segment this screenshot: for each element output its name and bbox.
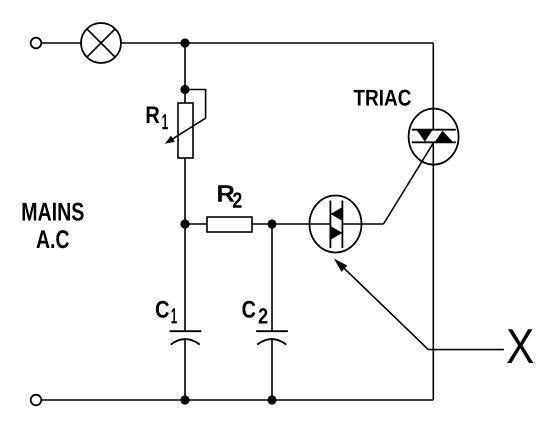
wire T1 to lamp	[42, 42, 82, 44]
node J4	[267, 219, 276, 228]
wire right side down to triac	[432, 43, 434, 130]
wire R1 down to J3	[184, 158, 186, 224]
capacitor C2 top plate	[256, 330, 288, 332]
diac left bar	[329, 201, 331, 249]
wire C2 from J4 down	[271, 224, 273, 331]
label C1	[156, 301, 169, 318]
diac D1	[310, 196, 362, 253]
wire gate diagonal to triac	[384, 144, 434, 225]
wire J3 to R2	[185, 223, 207, 225]
triac left triangle (points down)	[417, 131, 432, 142]
label R1	[147, 106, 160, 123]
label TRIAC	[354, 90, 411, 106]
terminal T2	[31, 395, 42, 406]
label MAINS	[23, 203, 84, 221]
node J2	[180, 85, 189, 94]
X pointer arrowhead	[334, 259, 347, 272]
label A.C	[36, 230, 68, 248]
wire diac left electrode	[310, 223, 331, 225]
wire J2 into R1 body	[184, 90, 186, 104]
R1 wiper arrowhead	[165, 136, 175, 144]
diac lower triangle (points right)	[330, 226, 342, 240]
wire diac to gate corner	[361, 223, 384, 225]
resistor R2	[207, 217, 252, 232]
capacitor C1 curved plate	[171, 339, 200, 345]
wire C1 from J3 down	[184, 224, 186, 331]
wire R2 to J4	[252, 223, 272, 225]
node J3	[180, 219, 189, 228]
capacitor C1 top plate	[170, 330, 202, 332]
diac upper triangle (points left)	[330, 207, 342, 221]
triac bottom plate	[412, 141, 456, 143]
wire X horizontal pointer	[428, 349, 504, 351]
label R2	[218, 185, 234, 202]
wire triac bottom to bottom-right corner	[432, 142, 434, 400]
label X	[507, 329, 533, 363]
node J5	[180, 395, 189, 404]
wire J1 down to J2	[184, 43, 186, 90]
capacitor C2 curved plate	[257, 339, 286, 345]
node J6	[267, 395, 276, 404]
wire lamp to top-right corner	[121, 42, 433, 44]
diac right bar	[341, 201, 343, 249]
terminal T1	[31, 38, 42, 49]
triac top plate	[412, 129, 456, 131]
wire X diagonal pointer	[340, 264, 428, 349]
lamp L1	[81, 23, 121, 63]
triac right triangle (points up)	[435, 131, 453, 142]
wire J2 wiper feed (right and down)	[185, 90, 206, 119]
R1 wiper diagonal	[171, 118, 206, 140]
node J1	[180, 38, 189, 47]
wire diac right electrode	[342, 223, 361, 225]
wire C1 down to bottom	[184, 339, 186, 400]
triac U1	[409, 109, 459, 165]
label C2	[242, 301, 255, 318]
resistor R1 (rheostat body)	[178, 103, 193, 158]
wire J4 to diac	[272, 223, 310, 225]
bottom wire	[42, 399, 434, 401]
wire C2 down to bottom	[271, 339, 273, 400]
